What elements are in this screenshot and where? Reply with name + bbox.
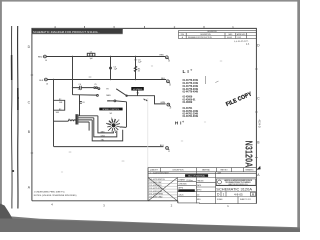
svg-text:J2: J2 — [169, 108, 171, 110]
svg-text:4124-D: 4124-D — [257, 120, 260, 128]
svg-text:B: B — [28, 130, 31, 134]
svg-text:TRACED: TRACED — [197, 179, 204, 182]
svg-text:SHEET 1 OF 1: SHEET 1 OF 1 — [240, 199, 251, 201]
svg-text:4-8-05: 4-8-05 — [179, 194, 184, 196]
svg-text:C: C — [257, 96, 260, 100]
svg-text:APPD: APPD — [179, 186, 184, 189]
svg-text:GRN: GRN — [160, 102, 165, 104]
svg-text:B: B — [257, 141, 260, 145]
svg-text:.02μF: .02μF — [77, 89, 83, 91]
svg-text:ORG: ORG — [101, 135, 106, 137]
svg-text:DATE: DATE — [197, 184, 201, 187]
svg-text:RED: RED — [38, 56, 43, 58]
svg-text:9-6: 9-6 — [246, 44, 250, 46]
svg-text:3: 3 — [223, 192, 225, 196]
svg-text:SCHEMATIC 3120A: SCHEMATIC 3120A — [216, 186, 252, 191]
svg-text:3: 3 — [103, 203, 105, 207]
svg-text:R2: R2 — [59, 99, 61, 101]
svg-text:DESCRIPTION: DESCRIPTION — [200, 34, 210, 36]
svg-text:SCHEMATIC·DIAGRAM·FOR·PRODUCT·: SCHEMATIC·DIAGRAM·FOR·PRODUCT·N3120A·· — [33, 30, 100, 34]
svg-text:4: 4 — [51, 202, 53, 206]
svg-text:4-8-05: 4-8-05 — [227, 37, 232, 39]
svg-text:61-43609: 61-43609 — [183, 101, 193, 104]
svg-text:SCALE: SCALE — [217, 198, 223, 201]
svg-text:BLK: BLK — [161, 78, 166, 80]
svg-text:DATE: DATE — [228, 33, 232, 36]
svg-text:FILE COPY: FILE COPY — [225, 91, 253, 108]
svg-text:MFG: MFG — [197, 199, 201, 201]
svg-text:RED: RED — [160, 54, 165, 56]
svg-text:L1: L1 — [68, 119, 70, 121]
svg-text:RELEASE FOR PRODUCTION: RELEASE FOR PRODUCTION — [188, 36, 212, 39]
svg-text:HI SPEED: HI SPEED — [133, 89, 143, 91]
svg-text:H I: H I — [175, 121, 182, 126]
svg-text:BLK: BLK — [39, 80, 44, 82]
svg-text:1μF: 1μF — [89, 58, 93, 60]
svg-text:NOTES: (UNLESS OTHERWISE SPECI: NOTES: (UNLESS OTHERWISE SPECIFIED) — [34, 195, 77, 197]
svg-text:PART NO: PART NO — [221, 168, 229, 171]
svg-text:BILL OF MATERIAL: BILL OF MATERIAL — [188, 175, 205, 178]
svg-text:SPEED CONTROL: SPEED CONTROL — [102, 109, 120, 111]
svg-text:APPD: APPD — [197, 189, 202, 192]
svg-text:D: D — [28, 45, 31, 49]
svg-text:APPROVED: APPROVED — [237, 33, 246, 36]
svg-text:1 61-44769 LEAD: 1 61-44769 LEAD — [149, 196, 163, 199]
svg-text:1 61-43609 CAP: 1 61-43609 CAP — [149, 181, 162, 184]
svg-text:2: 2 — [171, 204, 173, 208]
svg-text:N3120A: N3120A — [243, 141, 255, 168]
svg-text:S1: S1 — [110, 113, 113, 115]
svg-text:L I: L I — [183, 69, 190, 75]
svg-text:C6: C6 — [82, 102, 84, 104]
svg-text:YEL: YEL — [101, 139, 104, 141]
svg-text:HI: HI — [106, 88, 108, 90]
svg-text:.1μF: .1μF — [114, 69, 119, 71]
svg-text:4-8: 4-8 — [197, 194, 199, 196]
svg-text:J6: J6 — [46, 83, 48, 85]
svg-text:J1: J1 — [168, 151, 170, 153]
svg-text:DRAWN: DRAWN — [179, 179, 186, 182]
svg-text:A: A — [257, 173, 260, 177]
svg-text:CHECKED: CHECKED — [179, 183, 188, 185]
svg-text:LAUSON & LAWSON ENGINE DIVISIO: LAUSON & LAWSON ENGINE DIVISION — [224, 179, 252, 182]
svg-text:1 61-44775 PLUG: 1 61-44775 PLUG — [149, 188, 163, 190]
svg-text:50Ω: 50Ω — [59, 102, 63, 104]
svg-text:61-44761-3049: 61-44761-3049 — [183, 115, 199, 118]
svg-text:1 61-44763 COIL: 1 61-44763 COIL — [149, 191, 162, 193]
svg-text:A 4-24-05 R.H.: A 4-24-05 R.H. — [234, 40, 249, 44]
svg-text:C5: C5 — [94, 84, 96, 86]
svg-text:J5: J5 — [169, 84, 171, 86]
svg-text:J4: J4 — [45, 60, 47, 62]
svg-text:MATERIAL: MATERIAL — [202, 168, 210, 171]
svg-text:D: D — [257, 44, 260, 48]
svg-text:C: C — [28, 101, 31, 105]
svg-text:LO: LO — [107, 101, 110, 103]
svg-text:J3: J3 — [168, 60, 170, 62]
svg-text:1 UNDERLINED FEED (SEE P1): 1 UNDERLINED FEED (SEE P1) — [34, 192, 65, 194]
svg-text:REVISIONS: REVISIONS — [207, 31, 217, 33]
svg-text:DESCRIPTION: DESCRIPTION — [173, 169, 185, 171]
svg-text:R.Wms: R.Wms — [187, 180, 194, 182]
svg-text:REMARKS: REMARKS — [246, 168, 254, 171]
svg-text:R.W: R.W — [238, 37, 242, 39]
svg-text:A: A — [28, 186, 31, 190]
svg-text:.1μF: .1μF — [138, 62, 143, 64]
svg-text:S2: S2 — [137, 92, 140, 94]
svg-text:A: A — [252, 192, 255, 196]
svg-text:2K: 2K — [138, 70, 141, 72]
svg-text:1: 1 — [227, 204, 229, 208]
svg-text:R3: R3 — [59, 109, 61, 111]
svg-text:50Ω: 50Ω — [56, 112, 60, 114]
svg-text:MED: MED — [106, 95, 111, 97]
svg-text:61-44776-4049: 61-44776-4049 — [183, 91, 199, 94]
svg-text:2 61-44768 TERM: 2 61-44768 TERM — [149, 194, 163, 196]
svg-text:1 61-44761 RES: 1 61-44761 RES — [149, 185, 162, 187]
svg-text:QUANTITY: QUANTITY — [150, 168, 159, 171]
svg-text:4-8-05: 4-8-05 — [234, 192, 243, 196]
svg-text:BLU: BLU — [160, 145, 165, 147]
svg-text:D: D — [217, 192, 220, 196]
svg-text:1 61-44770 SWITCH: 1 61-44770 SWITCH — [149, 179, 165, 181]
